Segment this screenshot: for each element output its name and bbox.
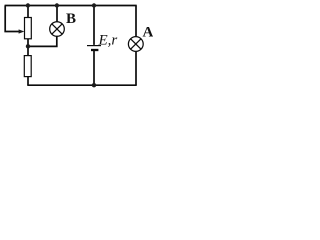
battery E,r short plate xyxy=(91,49,98,51)
wire right branch upper xyxy=(135,6,137,38)
node on top wire above lamp B xyxy=(55,3,59,7)
node junction mid-left xyxy=(26,44,30,48)
svg-text:A: A xyxy=(143,24,154,40)
svg-text:B: B xyxy=(66,11,76,27)
wire rheostat top lead xyxy=(27,6,29,18)
lamp B xyxy=(50,22,65,37)
svg-text:E,r: E,r xyxy=(98,33,118,49)
wire left with slider lead xyxy=(5,6,19,32)
wire top xyxy=(5,5,137,7)
wire battery top lead xyxy=(93,6,95,45)
node on top wire above battery xyxy=(92,3,96,7)
rheostat slider arrow head xyxy=(19,29,25,33)
lamp A xyxy=(128,37,143,52)
resistor R0 (lower) xyxy=(24,56,31,77)
wire bottom xyxy=(27,84,136,86)
wire lower resistor bottom lead xyxy=(27,77,29,86)
node on bottom wire below battery xyxy=(92,83,96,87)
wire lamp B bottom lead to node xyxy=(28,36,57,46)
node on top wire above rheostat xyxy=(26,3,30,7)
wire battery bottom lead xyxy=(93,51,95,86)
wire rheostat bottom lead to node xyxy=(27,39,29,56)
battery E,r long plate xyxy=(87,45,101,47)
wire right branch lower xyxy=(135,51,137,85)
wire lamp B top lead xyxy=(56,6,58,22)
resistor R (rheostat body) xyxy=(25,18,32,39)
